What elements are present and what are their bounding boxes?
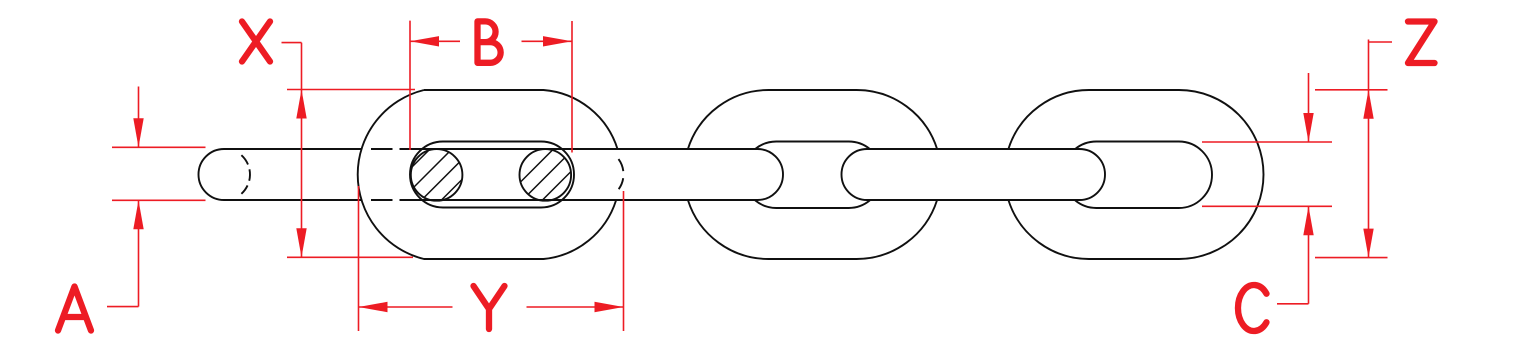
dim C upper arrow line (1308, 73, 1310, 142)
link3 inner hole (1075, 142, 1212, 209)
wire E0 hidden right cap (dashed) (619, 159, 624, 189)
dim Y extension line left (358, 186, 360, 331)
label B (478, 21, 501, 62)
dim Z leader elbow (1369, 41, 1393, 43)
wire top line hidden behind link1 left bar (dashed) (371, 148, 410, 150)
label Y (474, 286, 505, 329)
dim A arrowhead down (133, 118, 143, 147)
wire top line through link1 to link2 (410, 148, 758, 150)
section circle S1 (411, 149, 463, 201)
wire E0 hidden bore arc (dashed) inside left cap (241, 155, 250, 194)
wire top line link2 to link3 (867, 148, 1080, 150)
dim B dimension line left seg (410, 40, 460, 42)
dim C lower arrow line (1308, 206, 1310, 303)
wire E2 right cap inside link3 (1080, 149, 1106, 200)
dim X dimension line (301, 43, 303, 258)
section circle S2 (520, 149, 572, 201)
dim X extension line bottom (287, 256, 413, 258)
dim A lower arrow line (138, 200, 140, 306)
hatching of section circle S1 (364, 135, 507, 215)
wire bottom line link2 to link3 (867, 199, 1080, 201)
wire E0 left cap (199, 149, 224, 200)
label X (242, 22, 270, 62)
dim Z extension line top (1315, 89, 1388, 91)
dim A extension line top (112, 146, 206, 148)
dim X extension line top (287, 89, 415, 91)
link2 outer outline (688, 90, 937, 259)
link3 outer outline (1008, 90, 1263, 259)
dim Z arrowhead down (1363, 229, 1373, 258)
dim Y dimension line right seg (527, 306, 624, 308)
dim C arrowhead down (1303, 113, 1313, 142)
hatching of section circle S2 (467, 135, 630, 215)
dim Z dimension line (1368, 40, 1370, 258)
label A (58, 287, 91, 331)
dim Z extension line bottom (1315, 257, 1388, 259)
link1 inner hole (410, 142, 574, 208)
dim A upper arrow line (138, 87, 140, 148)
dim Y extension line right (623, 191, 625, 331)
dim Y arrowhead left (359, 302, 388, 312)
dim X arrowhead down (296, 228, 306, 257)
wire bottom line hidden behind link1 left bar (dashed) (371, 199, 410, 201)
wire top line solid (left) (224, 148, 362, 150)
dim A extension line bottom (112, 199, 206, 201)
dim B arrowhead left (410, 36, 439, 46)
wire bottom line solid (left) (224, 199, 362, 201)
dim A arrowhead up (133, 200, 143, 229)
dim C arrowhead up (1303, 206, 1313, 235)
label Z (1408, 22, 1435, 64)
dim C leader elbow (1277, 303, 1309, 305)
link1 outer outline (358, 90, 618, 259)
wire bottom line through link1 to link2 (410, 199, 758, 201)
dim Y dimension line left seg (359, 306, 453, 308)
dim B dimension line right seg (522, 40, 573, 42)
dim C extension line bottom (1202, 205, 1332, 207)
dim Z arrowhead up (1363, 90, 1373, 119)
link2 inner hole (755, 142, 870, 209)
dim X leader elbow (282, 42, 302, 44)
dim Y arrowhead right (595, 302, 624, 312)
dim B extension line left (409, 21, 411, 150)
dim B arrowhead right (543, 36, 572, 46)
dim X arrowhead up (296, 90, 306, 119)
wire E2 left cap inside link2 (842, 149, 868, 200)
dim A leader elbow (107, 306, 139, 308)
label C (1238, 285, 1267, 331)
wire E1 right cap inside link2 (758, 149, 784, 200)
dim B extension line right (571, 21, 573, 153)
dim C extension line top (1202, 141, 1332, 143)
